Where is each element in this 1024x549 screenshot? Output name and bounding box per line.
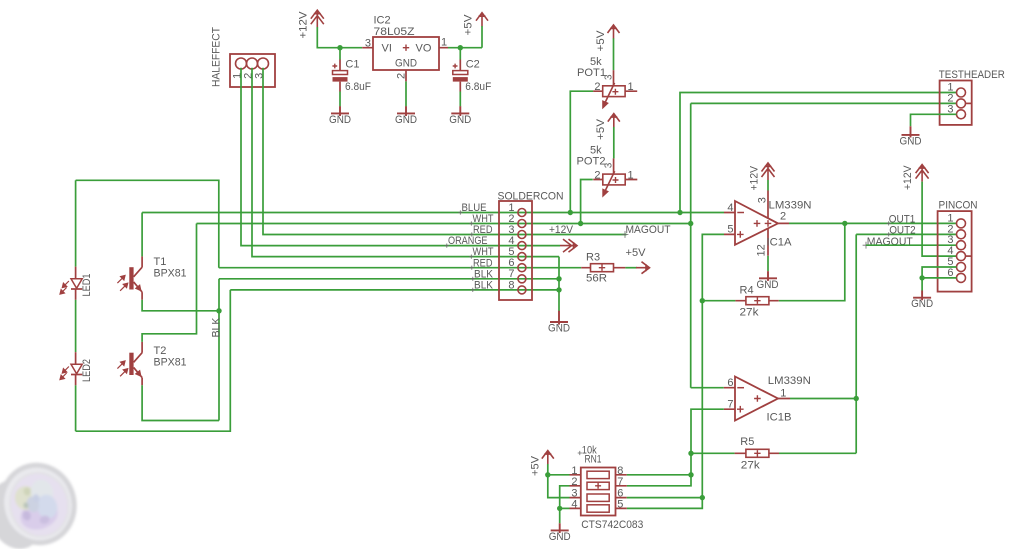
svg-text:1: 1	[628, 81, 634, 93]
wire RN1 pin8 row	[627, 474, 691, 476]
supply +5V arrow (POT2)	[608, 114, 620, 128]
wire PINCON pin6 stub	[922, 277, 956, 279]
SOLDERCON pin 4 circle	[518, 242, 526, 250]
wire +5V to POT2 pin3	[613, 127, 615, 158]
connector SOLDERCON box	[499, 201, 532, 300]
svg-text:+12V: +12V	[549, 224, 574, 236]
SOLDERCON pin 1 circle	[518, 209, 526, 217]
wire row2 WHT	[197, 223, 691, 225]
PINCON pin 6 circle	[957, 273, 966, 282]
wire LED string mid segment	[75, 300, 77, 352]
svg-text:+12V: +12V	[902, 165, 914, 190]
svg-text:2: 2	[571, 476, 577, 488]
junction POT1/row1	[568, 210, 573, 215]
svg-text:IC2: IC2	[374, 15, 391, 27]
wire R4 left	[702, 300, 735, 302]
junction row7/GND	[556, 276, 561, 281]
LED1	[60, 267, 82, 300]
svg-text:C2: C2	[466, 59, 480, 71]
svg-text:LM339N: LM339N	[769, 200, 812, 212]
SOLDERCON pin 6 circle	[518, 264, 526, 272]
svg-text:IC1B: IC1B	[767, 412, 792, 424]
svg-text:6.8uF: 6.8uF	[465, 81, 491, 93]
svg-text:VI: VI	[382, 42, 392, 54]
svg-text:CTS742C083: CTS742C083	[581, 519, 643, 531]
supply +5V arrow (RN1)	[542, 451, 554, 465]
junction row2 end	[688, 221, 693, 226]
svg-text:7: 7	[727, 399, 733, 411]
watermark lens photo (bottom-left)	[0, 457, 83, 549]
junction R5 left	[688, 451, 693, 456]
junction RN1 pin1/+5V	[545, 472, 550, 477]
supply +12V arrow (row4, right)	[560, 239, 577, 252]
PINCON pin 4 circle	[957, 252, 966, 261]
label origin cross MAGOUT right	[863, 242, 870, 249]
TESTHEADER pin2 right stub	[965, 102, 972, 104]
resistor R5	[735, 449, 779, 457]
svg-text:RN1: RN1	[585, 454, 602, 466]
potentiometer POT2	[593, 158, 637, 196]
wire RN1 pin6 row	[627, 497, 703, 499]
label origin cross row 2	[469, 221, 473, 225]
ground GND (C1)	[331, 106, 349, 116]
svg-text:GND: GND	[757, 279, 779, 291]
wire +5V to RN1 pins 1,3	[548, 464, 570, 498]
svg-text:3: 3	[254, 73, 266, 79]
SOLDERCON pin 5 circle	[518, 253, 526, 261]
svg-text:GND: GND	[911, 298, 933, 310]
ground GND (IC1A)	[759, 271, 777, 281]
svg-text:+5V: +5V	[530, 455, 542, 476]
IC2 pin stubs	[362, 48, 448, 82]
svg-text:27k: 27k	[741, 459, 761, 471]
ground GND (RN1)	[551, 523, 569, 533]
ground GND (SOLDERCON)	[550, 311, 568, 325]
wire T2 collector to row2	[142, 224, 196, 342]
svg-text:PINCON: PINCON	[939, 200, 978, 212]
junction C2/VO node	[458, 45, 463, 50]
svg-text:7: 7	[617, 476, 623, 488]
supply +5V arrow (POT1)	[608, 25, 620, 39]
op-amp IC1B LM339N	[724, 377, 790, 421]
ground GND (TESTHEADER)	[902, 126, 920, 137]
svg-text:3: 3	[365, 37, 371, 49]
wire LED loop bottom to row8	[76, 290, 231, 431]
svg-text:2: 2	[780, 211, 786, 223]
PINCON pin 3 circle	[957, 241, 966, 250]
capacitor C1	[332, 60, 347, 92]
wire row1 to TESTHEADER pin1	[680, 93, 957, 213]
svg-text:BLK: BLK	[210, 317, 222, 338]
PINCON pin 2 circle	[957, 230, 966, 239]
svg-text:VO: VO	[416, 42, 432, 54]
SOLDERCON pin 8 circle	[518, 286, 526, 294]
svg-text:4: 4	[571, 498, 577, 510]
wire HALEFFECT pin1 to row4	[241, 68, 560, 246]
label origin cross row 3	[470, 232, 474, 236]
supply +5V arrow (top)	[476, 13, 488, 27]
wire LED string bottom segment	[75, 385, 77, 431]
svg-text:OUT2: OUT2	[889, 224, 916, 236]
svg-text:BPX81: BPX81	[154, 357, 187, 369]
svg-text:TESTHEADER: TESTHEADER	[939, 69, 1005, 81]
wire row2 to TESTHEADER pin2	[691, 102, 957, 104]
label origin cross row 7	[471, 277, 475, 281]
wire POT2 pin2 to row2	[581, 180, 593, 224]
svg-text:R4: R4	[740, 284, 754, 296]
wire IC1B pin7 net	[627, 409, 724, 486]
wire OUT2 vertical	[855, 234, 857, 453]
TESTHEADER pin 1 circle	[957, 88, 966, 97]
svg-text:T2: T2	[154, 345, 167, 357]
wire row6 RED from LED loop to R3	[219, 267, 581, 269]
supply +12V arrow (top left)	[311, 10, 324, 27]
svg-text:MAGOUT: MAGOUT	[626, 224, 671, 236]
HALEFFECT pin 1 circle	[236, 58, 247, 69]
TESTHEADER pin 3 circle	[957, 110, 966, 119]
junction C1/VI node	[337, 45, 342, 50]
transistor T2 BPX81	[117, 342, 142, 385]
wire T1 collector	[141, 213, 143, 257]
svg-text:5: 5	[727, 224, 733, 236]
svg-text:HALEFFECT: HALEFFECT	[211, 27, 223, 87]
PINCON pin 1 circle	[957, 219, 966, 228]
resistor R3	[581, 264, 625, 272]
IC2 origin cross	[403, 45, 409, 51]
wire R5 left	[691, 452, 735, 454]
wire row2 vertical (WHT net)	[690, 103, 692, 387]
SOLDERCON pin 3 circle	[518, 231, 526, 239]
junction OUT1/R4	[842, 221, 847, 226]
wire T1 emitter to BLK node	[142, 300, 219, 311]
svg-text:2: 2	[594, 81, 600, 93]
wire HALEFFECT pin2 to row5	[252, 68, 559, 257]
wire +12V to IC2 VI	[317, 27, 362, 48]
svg-text:BLK: BLK	[474, 280, 494, 292]
svg-text:GND: GND	[395, 114, 417, 126]
svg-text:LED2: LED2	[81, 359, 93, 382]
supply +12V arrow (PINCON)	[916, 165, 929, 182]
svg-text:T1: T1	[154, 256, 167, 268]
label origin cross row 8	[471, 288, 475, 292]
wire R3 to +5V	[625, 267, 637, 269]
svg-text:+12V: +12V	[298, 11, 310, 39]
svg-text:6: 6	[727, 377, 733, 389]
svg-text:3: 3	[757, 197, 769, 203]
wire BLK vertical	[218, 279, 220, 421]
wire R5 right to OUT2	[779, 452, 856, 454]
wire IC1A output to PINCON pin1 (OUT1)	[789, 222, 957, 224]
svg-text:LED1: LED1	[81, 274, 93, 297]
svg-text:C1: C1	[345, 59, 359, 71]
label origin cross row 4	[445, 244, 449, 248]
junction RN1 pin6	[700, 495, 705, 500]
wire row5 to GND + rows7/8	[558, 257, 560, 312]
TESTHEADER pin 2 circle	[957, 99, 966, 108]
wire LED string top segment	[75, 180, 77, 266]
junction R4 left	[700, 298, 705, 303]
wire LED anode loop top (row6 net)	[76, 180, 219, 267]
wire PINCON pin5/pin6 to GND	[922, 267, 956, 291]
wire MAGOUT to PINCON pin3	[866, 244, 957, 246]
wire IC1B pin6 (from row2 net)	[691, 387, 724, 389]
connector PINCON box	[938, 211, 972, 292]
wire TESTHEADER pin3 to GND	[911, 114, 957, 126]
junction RN1 pin4/GND	[557, 506, 562, 511]
svg-text:2: 2	[594, 170, 600, 182]
junction IC1B out/R5/OUT2	[854, 396, 859, 401]
svg-text:LM339N: LM339N	[768, 375, 811, 387]
svg-text:IC1A: IC1A	[767, 236, 793, 248]
svg-text:R5: R5	[740, 436, 754, 448]
svg-text:1: 1	[441, 37, 447, 49]
resistor R4	[735, 297, 778, 305]
connector HALEFFECT box	[230, 54, 275, 87]
junction BLK node	[216, 308, 221, 313]
wire POT1 pin2 to row1	[570, 91, 593, 212]
op-amp IC1A LM339N	[724, 191, 789, 256]
svg-text:POT2: POT2	[577, 155, 606, 167]
svg-text:R3: R3	[586, 252, 600, 264]
connector TESTHEADER box	[940, 81, 972, 125]
svg-text:GND: GND	[329, 114, 351, 126]
svg-text:GND: GND	[900, 135, 922, 147]
svg-text:GND: GND	[449, 114, 471, 126]
wire +5V to POT1 pin3	[613, 38, 615, 70]
svg-text:78L05Z: 78L05Z	[374, 26, 415, 38]
svg-text:SOLDERCON: SOLDERCON	[498, 190, 564, 202]
wire row1 BLUE	[142, 212, 724, 214]
PINCON pin 5 circle	[957, 263, 966, 272]
svg-text:+5V: +5V	[626, 247, 647, 259]
label origin cross row 1	[458, 210, 462, 214]
wire C2 to GND	[459, 92, 461, 107]
ground GND (C2)	[451, 106, 469, 116]
wire IC1A pin12 to GND	[767, 256, 769, 271]
wire IC1B output	[790, 398, 856, 400]
potentiometer POT1	[593, 70, 637, 108]
svg-text:BPX81: BPX81	[154, 267, 187, 279]
svg-text:1: 1	[780, 388, 786, 400]
svg-text:6.8uF: 6.8uF	[345, 81, 371, 93]
label origin cross row 6	[470, 266, 474, 270]
junction row1/testheader	[677, 210, 682, 215]
wire RN1 pin1 stub	[548, 474, 570, 476]
junction POT2/row2	[578, 221, 583, 226]
svg-text:4: 4	[727, 202, 733, 214]
wire IC2 VO to +5V/C2	[448, 47, 482, 49]
SOLDERCON pin 2 circle	[518, 220, 526, 228]
wire C1 to GND	[339, 92, 341, 107]
wire down to C2	[459, 48, 461, 60]
wire +12V to IC1A pin3	[767, 180, 769, 191]
svg-text:8: 8	[508, 279, 514, 291]
wire HALEFFECT pin3 to row3 MAGOUT	[263, 68, 627, 235]
wire IC1A pin5 net vertical	[627, 234, 724, 508]
HALEFFECT pin 3 circle	[258, 58, 269, 69]
junction RN1 pin8	[688, 472, 693, 477]
svg-text:GND: GND	[549, 531, 571, 543]
label origin cross OUT2	[887, 232, 891, 236]
svg-text:2: 2	[396, 73, 408, 79]
label origin cross 10k	[578, 451, 582, 455]
svg-text:+5V: +5V	[463, 14, 475, 36]
supply +5V arrow (R3)	[636, 262, 650, 274]
wire down to C1	[339, 48, 341, 60]
label origin cross MAGOUT left	[622, 231, 629, 238]
svg-text:+12V: +12V	[749, 165, 761, 190]
svg-text:27k: 27k	[740, 306, 760, 318]
wire +12V to PINCON pin4	[922, 182, 956, 257]
wire T2 emitter to BLK net	[142, 385, 219, 420]
junction row8/GND	[556, 287, 561, 292]
svg-text:GND: GND	[548, 323, 570, 335]
wire RN1 pin2/pin4 to GND	[560, 486, 570, 523]
wire +5V stem	[481, 26, 483, 48]
svg-text:+5V: +5V	[595, 30, 607, 52]
label origin cross OUT1	[887, 221, 891, 225]
svg-text:+5V: +5V	[595, 118, 607, 140]
wire R4 right to OUT1	[779, 223, 845, 300]
svg-text:56R: 56R	[586, 272, 607, 284]
svg-text:GND: GND	[395, 57, 417, 69]
ground GND (IC2)	[397, 106, 415, 116]
junction PINCON pin6/GND	[919, 275, 924, 280]
capacitor C2	[453, 60, 468, 92]
wire RN1 pin4 stub	[560, 507, 570, 509]
svg-text:POT1: POT1	[577, 67, 606, 79]
wire IC2 pin2 to GND	[405, 81, 407, 106]
svg-text:1: 1	[628, 170, 634, 182]
supply +12V arrow (IC1A)	[762, 163, 775, 180]
wire row8 BLK to connector/GND	[230, 289, 559, 291]
regulator IC2 box	[373, 37, 439, 70]
LED2	[60, 352, 82, 385]
resistor network RN1	[570, 468, 627, 516]
PINCON pin4 right stub	[965, 255, 971, 257]
ground GND (PINCON)	[913, 291, 931, 301]
SOLDERCON pin 7 circle	[518, 275, 526, 283]
svg-text:5: 5	[617, 498, 623, 510]
transistor T1 BPX81	[117, 256, 142, 299]
label origin cross row 5	[469, 255, 473, 259]
HALEFFECT pin 2 circle	[247, 58, 258, 69]
wire OUT2 to PINCON pin2	[856, 233, 956, 235]
wire row7 BLK	[219, 278, 559, 280]
